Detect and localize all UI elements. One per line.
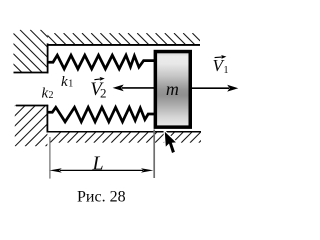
node: right extension line of L xyxy=(153,130,155,179)
cursor pointer at block bottom xyxy=(165,132,176,153)
node: left extension line of L xyxy=(49,137,51,179)
svg-text:Рис. 28: Рис. 28 xyxy=(77,189,126,206)
mass block m xyxy=(155,52,190,128)
arrow V1 (velocity right) xyxy=(192,85,238,92)
spring k2 (lower) xyxy=(47,107,155,122)
svg-text:1: 1 xyxy=(224,65,229,76)
svg-text:m: m xyxy=(166,79,179,99)
svg-text:L: L xyxy=(92,152,104,174)
hatching: top wall band xyxy=(36,33,204,44)
wire: lower-left block right edge xyxy=(46,105,48,132)
svg-text:1: 1 xyxy=(68,79,73,90)
wire: upper-left block bottom edge xyxy=(14,72,49,74)
wire: floor line xyxy=(47,131,202,133)
wire: upper-left block right edge xyxy=(47,43,49,73)
svg-text:2: 2 xyxy=(49,90,54,101)
hatching: floor band xyxy=(50,132,219,143)
svg-text:k: k xyxy=(61,74,68,90)
hatching: upper-left wall block xyxy=(0,30,83,73)
svg-text:k: k xyxy=(42,86,49,102)
hatching: lower-left wall block xyxy=(0,105,87,146)
wire: top wall underline xyxy=(47,44,200,46)
wire: lower-left block top edge xyxy=(16,105,48,107)
dimension arrow L xyxy=(49,168,153,172)
arrow V2 (velocity left) xyxy=(113,85,155,92)
spring k1 (upper) xyxy=(47,55,155,69)
svg-text:2: 2 xyxy=(100,85,107,100)
